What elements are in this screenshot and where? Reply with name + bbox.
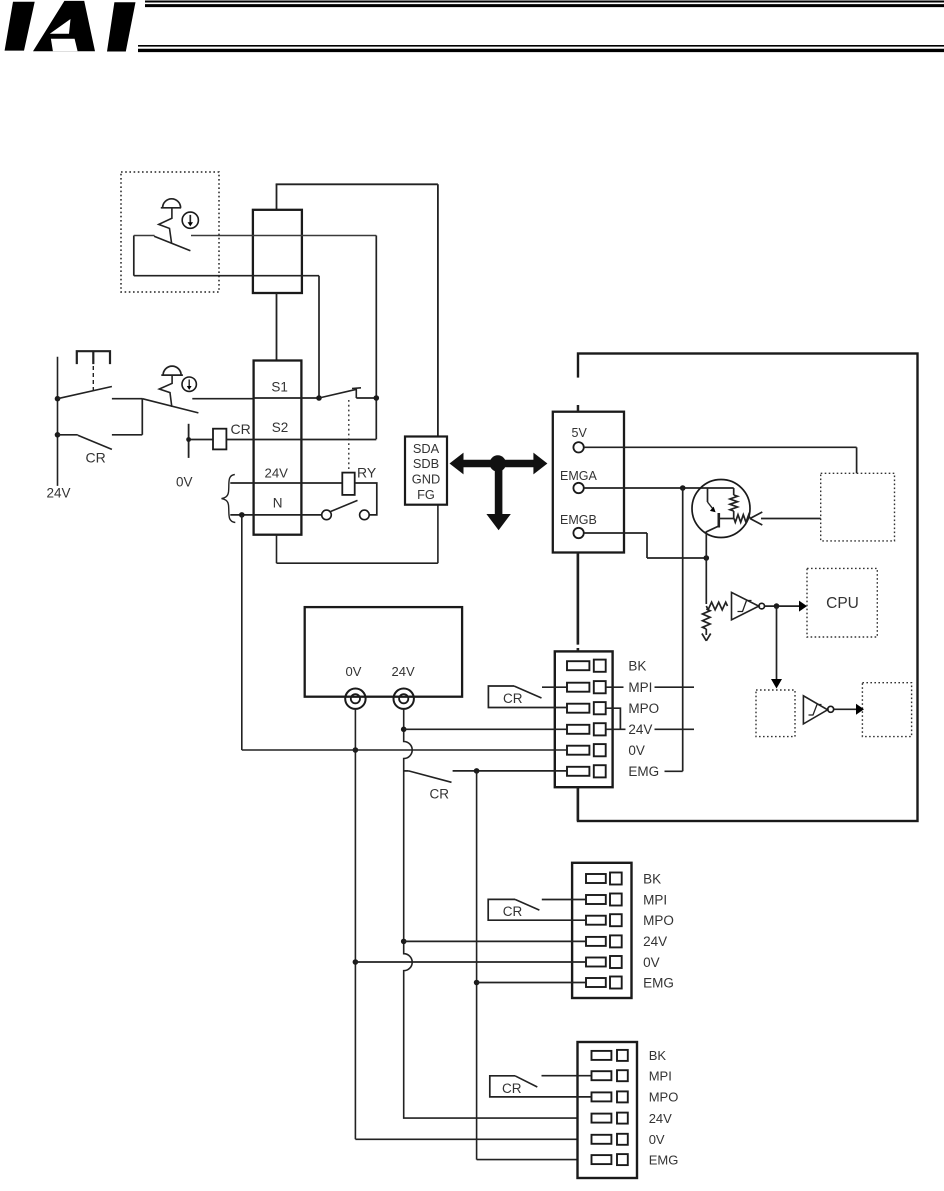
svg-text:24V: 24V — [643, 934, 667, 949]
svg-text:CR: CR — [231, 421, 251, 437]
svg-text:0V: 0V — [628, 743, 645, 758]
svg-text:S2: S2 — [272, 420, 289, 435]
svg-text:24V: 24V — [265, 466, 289, 481]
svg-text:5V: 5V — [572, 426, 588, 440]
svg-text:EMG: EMG — [628, 764, 659, 779]
svg-text:CR: CR — [503, 904, 523, 919]
svg-text:0V: 0V — [649, 1132, 665, 1147]
svg-text:S1: S1 — [271, 380, 288, 395]
svg-text:CR: CR — [502, 1081, 522, 1096]
svg-text:CR: CR — [430, 787, 450, 802]
svg-text:CPU: CPU — [826, 595, 859, 612]
svg-text:EMGA: EMGA — [560, 469, 597, 483]
svg-text:0V: 0V — [643, 955, 660, 970]
svg-text:MPO: MPO — [628, 701, 659, 716]
svg-text:FG: FG — [417, 487, 435, 502]
svg-text:N: N — [273, 496, 283, 511]
svg-text:24V: 24V — [47, 486, 71, 501]
svg-text:EMGB: EMGB — [560, 513, 597, 527]
svg-text:EMG: EMG — [649, 1152, 679, 1167]
svg-text:MPO: MPO — [649, 1090, 679, 1105]
svg-text:24V: 24V — [392, 664, 415, 679]
svg-text:BK: BK — [628, 659, 646, 674]
svg-text:MPI: MPI — [628, 680, 652, 695]
svg-text:CR: CR — [86, 450, 106, 466]
svg-text:0V: 0V — [346, 664, 362, 679]
svg-text:0V: 0V — [176, 475, 193, 490]
svg-text:SDB: SDB — [413, 456, 439, 471]
svg-text:RY: RY — [357, 465, 377, 481]
svg-text:BK: BK — [643, 871, 661, 886]
svg-text:24V: 24V — [628, 722, 652, 737]
svg-text:SDA: SDA — [413, 441, 440, 456]
svg-text:EMG: EMG — [643, 975, 674, 990]
svg-text:MPO: MPO — [643, 913, 674, 928]
svg-text:CR: CR — [503, 691, 523, 706]
svg-text:MPI: MPI — [649, 1069, 672, 1084]
svg-text:24V: 24V — [649, 1111, 672, 1126]
svg-text:BK: BK — [649, 1048, 667, 1063]
svg-text:GND: GND — [412, 472, 440, 487]
svg-text:MPI: MPI — [643, 892, 667, 907]
